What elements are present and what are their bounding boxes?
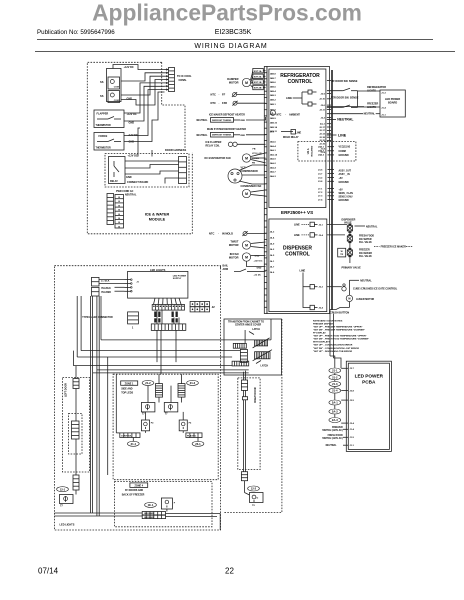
svg-text:J5-4: J5-4 xyxy=(319,307,324,310)
svg-text:YEL/BLK: YEL/BLK xyxy=(101,288,111,290)
svg-text:ASSY_OUT: ASSY_OUT xyxy=(339,170,352,173)
svg-text:+12 DC: +12 DC xyxy=(254,274,262,276)
bus verticals from led connectors xyxy=(89,296,91,513)
svg-text:J4A-1: J4A-1 xyxy=(318,146,325,149)
svg-text:J1-4: J1-4 xyxy=(350,428,355,431)
svg-text:M: M xyxy=(245,255,248,259)
svg-text:"SET DN" - COMMUNICATION LOST: "SET DN" - COMMUNICATION LOST ERROR xyxy=(313,347,359,350)
wire zone ovals chain xyxy=(334,393,336,400)
svg-text:FREEZER ICE MAKER: FREEZER ICE MAKER xyxy=(381,245,407,248)
svg-text:FILL VALVE: FILL VALVE xyxy=(359,241,372,244)
led harness connector lower wide xyxy=(151,324,186,331)
svg-text:J4-1: J4-1 xyxy=(270,260,275,263)
svg-text:SS: SS xyxy=(100,80,104,84)
led supply connector boxes xyxy=(92,277,100,286)
svg-text:J4B-1: J4B-1 xyxy=(270,103,277,106)
svg-text:AppliancePartsPros.com: AppliancePartsPros.com xyxy=(92,0,362,26)
svg-text:12-2: 12-2 xyxy=(251,487,257,491)
svg-text:NEUTRAL: NEUTRAL xyxy=(366,225,378,228)
bus wires horizontal across freezer top xyxy=(101,339,271,341)
svg-text:SWITCH (120V AC): SWITCH (120V AC) xyxy=(322,429,343,432)
oval 12-2 xyxy=(248,486,260,491)
svg-text:EXT.1A: EXT.1A xyxy=(254,70,262,73)
pcba connector ovals J1 group xyxy=(329,368,341,373)
svg-text:J3-7: J3-7 xyxy=(318,173,323,175)
wires transition to control xyxy=(244,330,246,337)
svg-text:TRANSITION FROM CABINET TO: TRANSITION FROM CABINET TO xyxy=(228,321,264,324)
water filter box xyxy=(338,248,346,257)
svg-text:2A-3: 2A-3 xyxy=(332,418,338,422)
doors dashed enclosure left segment xyxy=(224,512,226,514)
svg-text:KEYBOARD / DOOR NOTES:: KEYBOARD / DOOR NOTES: xyxy=(313,319,343,322)
zone1 led module right xyxy=(164,403,178,412)
svg-text:21-4: 21-4 xyxy=(131,442,137,446)
zone1 wires xyxy=(158,374,160,383)
oval 12-1 xyxy=(57,487,69,492)
svg-text:VCC(115V): VCC(115V) xyxy=(339,147,351,149)
svg-text:NEUTRAL: NEUTRAL xyxy=(197,134,209,137)
zone 1 dashed box xyxy=(113,374,218,480)
transition area box xyxy=(224,319,282,375)
led harness connector wide xyxy=(152,305,184,311)
oval 23-1 zone1 xyxy=(192,441,204,446)
svg-text:SUPPLY: SUPPLY xyxy=(173,278,182,280)
svg-text:J2-6: J2-6 xyxy=(321,105,326,107)
svg-text:J4B-8: J4B-8 xyxy=(270,73,277,76)
svg-text:GND: GND xyxy=(129,141,135,144)
svg-text:GROUND: GROUND xyxy=(339,200,350,202)
label ZONE 1 SIDE AND TOP LEDS xyxy=(121,381,138,385)
svg-text:NEUTRAL: NEUTRAL xyxy=(360,279,372,282)
relay connect board box xyxy=(109,157,126,184)
zone 4 dashed box xyxy=(115,482,213,527)
svg-text:MAIN SYSTEM DEFROST HEATER: MAIN SYSTEM DEFROST HEATER xyxy=(207,128,246,131)
right door wire pair xyxy=(243,372,245,380)
dispenser valve symbol xyxy=(347,226,352,231)
svg-text:LIGHTS: LIGHTS xyxy=(367,106,376,109)
wires force to connector xyxy=(124,90,165,136)
svg-text:J4-7: J4-7 xyxy=(270,265,275,268)
svg-text:J4A-3: J4A-3 xyxy=(270,175,277,178)
svg-text:M: M xyxy=(245,243,248,247)
svg-text:FB: FB xyxy=(252,163,255,165)
svg-text:LINE: LINE xyxy=(294,234,300,237)
wire gnd bus xyxy=(121,80,165,106)
svg-text:SENS 2 GNU: SENS 2 GNU xyxy=(339,197,353,199)
svg-text:J4-6: J4-6 xyxy=(270,271,275,274)
zone4 lamp xyxy=(161,498,172,509)
svg-text:J4B-3: J4B-3 xyxy=(270,94,277,97)
svg-text:NTC: NTC xyxy=(277,114,282,117)
ic cool connector pins xyxy=(165,69,169,71)
svg-text:J2-13: J2-13 xyxy=(319,134,325,136)
ice and water module dashed enclosure jog xyxy=(162,62,185,148)
oval 21-4 zone1 xyxy=(127,441,139,446)
svg-text:J2-19: J2-19 xyxy=(319,144,325,146)
door harness dashed box xyxy=(105,154,189,188)
left door connector chain bottom xyxy=(73,475,79,490)
svg-text:12-1: 12-1 xyxy=(60,487,66,491)
zone1 bottom connector left xyxy=(120,433,140,438)
svg-text:NTC: NTC xyxy=(211,101,216,105)
svg-text:ZONE 1: ZONE 1 xyxy=(125,382,134,385)
svg-text:TWIST: TWIST xyxy=(230,240,238,244)
svg-text:SWITCH (120V AC): SWITCH (120V AC) xyxy=(322,437,343,440)
svg-text:J4B-10: J4B-10 xyxy=(270,122,278,125)
svg-text:RIGHT DOOR: RIGHT DOOR xyxy=(254,387,257,403)
svg-text:RELAY: RELAY xyxy=(110,180,118,183)
door harness wires xyxy=(125,160,179,162)
svg-text:COMPRESSOR: COMPRESSOR xyxy=(241,170,259,173)
svg-text:COM: COM xyxy=(114,100,119,102)
svg-text:FF DOOR SW. SENSE: FF DOOR SW. SENSE xyxy=(332,80,358,83)
svg-text:THERMISTOR: THERMISTOR xyxy=(96,148,111,150)
svg-text:GND: GND xyxy=(257,267,262,269)
svg-text:J7-3: J7-3 xyxy=(318,196,323,198)
svg-text:LED LIGHTS: LED LIGHTS xyxy=(150,268,166,272)
hinge connector row 1 xyxy=(233,343,246,348)
svg-text:J2-4: J2-4 xyxy=(319,234,324,237)
svg-text:PCBA: PCBA xyxy=(362,379,376,384)
svg-text:"SET UP" - FRESH FOOD TEMPERAT: "SET UP" - FRESH FOOD TEMPERATURE "UPPER… xyxy=(313,335,367,338)
connector bus vertical line xyxy=(330,70,332,310)
right door small connector xyxy=(242,397,247,400)
right door lower connector xyxy=(241,472,247,481)
svg-text:2A-2: 2A-2 xyxy=(332,410,338,414)
svg-text:NTC: NTC xyxy=(209,232,214,236)
svg-text:LINE: LINE xyxy=(286,96,292,100)
svg-text:+12V DC: +12V DC xyxy=(124,66,134,69)
left door inner dashed box xyxy=(69,414,83,455)
svg-text:CONN.: CONN. xyxy=(179,79,187,82)
svg-text:J4A-9: J4A-9 xyxy=(270,158,277,161)
svg-text:"SET UP" - DISPENSING TUB ERRO: "SET UP" - DISPENSING TUB ERROR xyxy=(313,351,352,353)
led lights fan-out wires xyxy=(154,298,156,304)
wires flapper to connector xyxy=(124,83,165,113)
svg-text:2A-1: 2A-1 xyxy=(332,401,338,405)
svg-text:J4A-5: J4A-5 xyxy=(270,141,277,144)
svg-text:LINE: LINE xyxy=(294,223,300,226)
svg-text:-: - xyxy=(219,94,220,97)
oval 21-2 zone1 xyxy=(142,380,154,385)
svg-text:22: 22 xyxy=(225,567,234,576)
svg-text:+12V DC: +12V DC xyxy=(128,155,138,158)
zone1 bottom connector right xyxy=(186,433,202,438)
door harness connector xyxy=(179,157,187,184)
control board input connector strip xyxy=(264,67,267,314)
led power pcba inner box xyxy=(348,363,389,449)
svg-text:FILL VALVE: FILL VALVE xyxy=(359,255,372,258)
svg-text:FRESH FOOD: FRESH FOOD xyxy=(328,435,343,437)
svg-text:J3-8: J3-8 xyxy=(350,390,355,392)
hinge connector row 2 xyxy=(232,361,249,366)
svg-text:J2-9: J2-9 xyxy=(321,94,326,96)
svg-text:ICE & WATER: ICE & WATER xyxy=(145,213,170,217)
led lights pins xyxy=(125,279,131,281)
svg-text:FRESH FOOD: FRESH FOOD xyxy=(359,236,374,238)
ice and water module dashed enclosure xyxy=(87,62,192,234)
label ZONE 4 FF DOORS AND BACK OF FREEZER xyxy=(130,483,148,488)
power cord connector right xyxy=(115,195,124,229)
svg-text:LED POWER: LED POWER xyxy=(385,98,400,101)
header rule lower xyxy=(35,51,455,53)
left door led module xyxy=(60,495,74,504)
svg-text:COM: COM xyxy=(114,87,119,89)
svg-text:23-1: 23-1 xyxy=(195,442,201,446)
svg-text:MOTOR: MOTOR xyxy=(229,256,239,260)
svg-text:J4B-6: J4B-6 xyxy=(270,81,277,84)
svg-text:J2-11: J2-11 xyxy=(319,109,325,111)
svg-text:+5V: +5V xyxy=(339,189,344,191)
svg-text:"SET DN" - FRESH FOOD TEMPERAT: "SET DN" - FRESH FOOD TEMPERATURE "DOWNE… xyxy=(313,338,369,341)
led harness connector pin dots xyxy=(153,306,155,308)
svg-text:J2-17: J2-17 xyxy=(319,130,325,132)
refrigerator control inner box xyxy=(269,69,326,208)
pcba pin stub wires xyxy=(341,367,348,369)
left door dashed box xyxy=(63,378,90,473)
svg-text:J4-3: J4-3 xyxy=(270,231,275,234)
svg-text:G: G xyxy=(257,498,259,500)
svg-text:J4B-7: J4B-7 xyxy=(270,77,277,80)
svg-text:+12V DC: +12V DC xyxy=(127,113,137,116)
svg-text:M: M xyxy=(348,297,350,301)
svg-text:DOOR HARNESS: DOOR HARNESS xyxy=(165,148,186,152)
doors dashed enclosure right xyxy=(226,319,282,513)
oval 21-3 zone1 xyxy=(187,380,199,385)
svg-text:DC EVAPORATOR FAN: DC EVAPORATOR FAN xyxy=(205,157,231,160)
svg-text:FF DOORS AND: FF DOORS AND xyxy=(125,489,143,492)
svg-text:"SET UP" - COMMUNICATION ERROR: "SET UP" - COMMUNICATION ERROR xyxy=(313,344,353,347)
svg-text:TYPICAL LED CONNECTOR: TYPICAL LED CONNECTOR xyxy=(82,316,113,319)
svg-text:MOTOR: MOTOR xyxy=(229,243,239,247)
svg-text:IM FAN: IM FAN xyxy=(230,252,239,256)
svg-text:FLAPPER: FLAPPER xyxy=(97,113,109,116)
svg-text:IN MOLD: IN MOLD xyxy=(222,232,233,236)
svg-text:NEUTRAL: NEUTRAL xyxy=(337,118,353,122)
svg-text:FREEZER: FREEZER xyxy=(359,250,370,252)
svg-text:NEUTRAL: NEUTRAL xyxy=(197,119,209,122)
svg-text:AUGER MOTOR: AUGER MOTOR xyxy=(356,298,374,301)
thermistor NTC-AMBIENT xyxy=(270,110,275,115)
ic cool connector xyxy=(169,68,175,92)
led lights box xyxy=(128,271,188,298)
svg-text:FZR: FZR xyxy=(222,101,227,105)
svg-text:BOARD: BOARD xyxy=(388,102,397,105)
svg-text:FB: FB xyxy=(253,149,256,151)
svg-text:CONDENSER FAN: CONDENSER FAN xyxy=(241,185,262,188)
svg-text:J1-4: J1-4 xyxy=(381,107,386,110)
connector J2 grid xyxy=(190,302,209,307)
svg-text:M: M xyxy=(245,81,248,85)
svg-text:MOLD RELAY: MOLD RELAY xyxy=(283,136,299,139)
damper motor wires xyxy=(251,71,253,80)
svg-text:DAMPER: DAMPER xyxy=(227,77,238,81)
svg-text:ICE MAKER: ICE MAKER xyxy=(359,252,372,255)
svg-text:J1-1: J1-1 xyxy=(381,115,386,117)
svg-text:J5-2: J5-2 xyxy=(319,287,324,289)
wire right door to led xyxy=(244,481,246,493)
svg-text:BACK OF FREEZER: BACK OF FREEZER xyxy=(122,493,145,496)
svg-text:J2-1: J2-1 xyxy=(319,224,324,226)
dispenser relay 4 xyxy=(310,305,314,309)
svg-text:MOTOR: MOTOR xyxy=(229,81,239,85)
U2A isolated dashed box xyxy=(298,142,356,161)
svg-text:FF DISPLAY:: FF DISPLAY: xyxy=(313,332,326,335)
svg-text:EXT.1B: EXT.1B xyxy=(254,82,262,84)
svg-text:NEUTRAL: NEUTRAL xyxy=(364,113,376,116)
svg-text:LINE: LINE xyxy=(300,270,306,273)
svg-text:ERF2500++ VS: ERF2500++ VS xyxy=(281,210,313,215)
zone1 led strip right xyxy=(178,384,185,398)
svg-text:J3-5: J3-5 xyxy=(350,400,355,402)
svg-text:J4A-4: J4A-4 xyxy=(270,145,277,148)
svg-text:GROUND: GROUND xyxy=(339,182,350,184)
svg-text:LINE: LINE xyxy=(296,132,302,135)
zone4 wires xyxy=(54,512,142,514)
left door connector chain top xyxy=(73,379,79,389)
wires bus down right side xyxy=(333,314,335,358)
svg-text:J3-4: J3-4 xyxy=(350,422,355,425)
svg-text:MODULE: MODULE xyxy=(149,218,166,222)
svg-text:LATCH: LATCH xyxy=(252,328,260,331)
zone1 led strip left xyxy=(156,384,163,398)
svg-text:J4B-5: J4B-5 xyxy=(270,86,277,89)
wire auger vertical xyxy=(348,280,350,295)
svg-text:SENS_ FLAN: SENS_ FLAN xyxy=(339,192,354,195)
svg-text:ISOLATED: ISOLATED xyxy=(311,145,314,156)
right door dashed box xyxy=(238,378,260,470)
svg-text:FZR DOOR SW. SENSE: FZR DOOR SW. SENSE xyxy=(331,97,359,100)
latch connector upper xyxy=(255,340,268,346)
svg-text:J4-4: J4-4 xyxy=(270,236,275,239)
svg-text:DEFROST THERM.: DEFROST THERM. xyxy=(212,120,232,122)
wire neutral to board xyxy=(327,113,363,115)
oval 1E-1 xyxy=(145,502,157,507)
svg-text:J7-2: J7-2 xyxy=(318,192,323,194)
switch SW1 xyxy=(108,77,120,89)
svg-text:ASSY__IN: ASSY__IN xyxy=(339,173,350,176)
svg-text:J4B-4: J4B-4 xyxy=(270,90,277,93)
svg-text:"SET DN" - FREEZER TEMPERATURE: "SET DN" - FREEZER TEMPERATURE "DOWNER" xyxy=(313,328,365,331)
power cord connector left xyxy=(107,194,114,225)
svg-text:21-1: 21-1 xyxy=(332,369,338,373)
svg-text:CONTROL: CONTROL xyxy=(121,435,132,437)
dispenser control inner box xyxy=(269,219,327,312)
svg-text:21-4: 21-4 xyxy=(332,389,338,393)
svg-text:TOP LEDS: TOP LEDS xyxy=(121,391,133,394)
bus vertical zone1 feed xyxy=(107,357,109,475)
svg-text:J1-1: J1-1 xyxy=(270,131,275,133)
svg-text:LATCH: LATCH xyxy=(261,364,269,367)
pcba connector ovals JA group xyxy=(329,400,341,405)
svg-text:GND: GND xyxy=(129,122,135,125)
freezer cabinet dashed box xyxy=(54,266,220,530)
svg-text:WIRING DIAGRAM: WIRING DIAGRAM xyxy=(194,43,267,50)
svg-text:J2-2: J2-2 xyxy=(321,118,326,120)
svg-text:(C)-1: (C)-1 xyxy=(320,124,326,126)
svg-text:J4A-7: J4A-7 xyxy=(270,171,277,174)
damper motor terminal boxes EXT.1A EXT.2A EXT.1B EXT.2B xyxy=(253,69,263,73)
svg-text:FORCE: FORCE xyxy=(99,135,108,138)
dispenser relay 3 xyxy=(310,285,314,289)
svg-text:AMBIENT: AMBIENT xyxy=(289,114,300,117)
pcba oval link wires xyxy=(334,373,336,374)
svg-text:J4A-3: J4A-3 xyxy=(318,154,325,157)
wire led module xyxy=(75,490,77,495)
svg-text:LINE: LINE xyxy=(338,133,347,137)
svg-text:J4-9: J4-9 xyxy=(270,242,275,245)
svg-text:J2-17: J2-17 xyxy=(319,127,325,129)
left door inner connector xyxy=(72,421,80,439)
svg-text:CUBE /CRUSHED ICE GATE CONTROL: CUBE /CRUSHED ICE GATE CONTROL xyxy=(353,288,398,291)
svg-text:J4B-2: J4B-2 xyxy=(270,99,277,102)
svg-text:CONTROL: CONTROL xyxy=(285,251,310,257)
switch SW2 xyxy=(108,91,120,103)
svg-text:J3-2: J3-2 xyxy=(318,177,323,179)
svg-text:-: - xyxy=(219,102,220,105)
svg-text:YEL/RED: YEL/RED xyxy=(101,292,111,294)
svg-text:TO IC COOL: TO IC COOL xyxy=(177,75,192,78)
refrigerator control right edge tick wires xyxy=(327,80,332,82)
svg-text:FF: FF xyxy=(222,93,226,97)
svg-text:GROUND: GROUND xyxy=(339,155,350,157)
force thermistor box xyxy=(94,133,124,151)
zone4 connector rows xyxy=(142,512,165,515)
svg-text:SIDE AND: SIDE AND xyxy=(121,387,133,390)
bus vertical right side xyxy=(270,319,272,340)
svg-text:J3-8: J3-8 xyxy=(318,181,323,183)
wire freezer lights xyxy=(327,106,364,108)
svg-text:U2 A: U2 A xyxy=(306,148,310,154)
svg-text:ICE MAKER DEFROST HEATER: ICE MAKER DEFROST HEATER xyxy=(209,113,245,116)
small 2-pin connectors xyxy=(154,312,156,318)
svg-text:J4A-1: J4A-1 xyxy=(270,149,277,152)
svg-text:ICE WATER: ICE WATER xyxy=(359,238,372,241)
svg-text:21-3: 21-3 xyxy=(332,382,338,386)
svg-text:NTC: NTC xyxy=(211,93,216,97)
svg-text:GND: GND xyxy=(127,98,133,101)
wires led supply to led box xyxy=(99,279,125,281)
small 2-pin connectors row 2 xyxy=(154,318,156,322)
svg-text:J1-3: J1-3 xyxy=(381,93,386,95)
wire door switches to led power board xyxy=(357,91,359,108)
svg-text:J2: J2 xyxy=(212,305,216,309)
svg-text:+5V: +5V xyxy=(339,178,344,180)
svg-text:J4A-2: J4A-2 xyxy=(270,162,277,165)
svg-text:J3-5: J3-5 xyxy=(318,170,323,172)
svg-text:J2-18: J2-18 xyxy=(319,137,325,139)
svg-text:FREEZER DISPLAY:: FREEZER DISPLAY: xyxy=(313,322,334,325)
svg-text:TR: TR xyxy=(340,254,343,256)
wire relay board to +12 bus xyxy=(138,128,140,157)
zone1 lamp right xyxy=(179,420,187,431)
svg-text:LT. BLK: LT. BLK xyxy=(101,280,110,282)
connector J2 grid pin dots xyxy=(192,303,194,305)
wires valves xyxy=(349,233,351,236)
svg-text:LIGHTS: LIGHTS xyxy=(367,89,376,92)
hinge connector column xyxy=(240,349,247,362)
led power board box xyxy=(380,90,405,117)
svg-text:"SET UP" - FREEZER TEMPERATURE: "SET UP" - FREEZER TEMPERATURE "UPPER" xyxy=(313,325,362,328)
svg-text:WITH DISPLAYS:: WITH DISPLAYS: xyxy=(313,341,331,344)
bus verticals from harness connector xyxy=(156,330,158,362)
auger motor circle xyxy=(346,295,352,301)
wires switch box to ic cool connector xyxy=(113,65,165,70)
svg-text:SS: SS xyxy=(100,94,104,98)
dispenser switch box xyxy=(107,69,122,102)
right door led module xyxy=(250,493,264,503)
header rule upper xyxy=(37,39,433,41)
